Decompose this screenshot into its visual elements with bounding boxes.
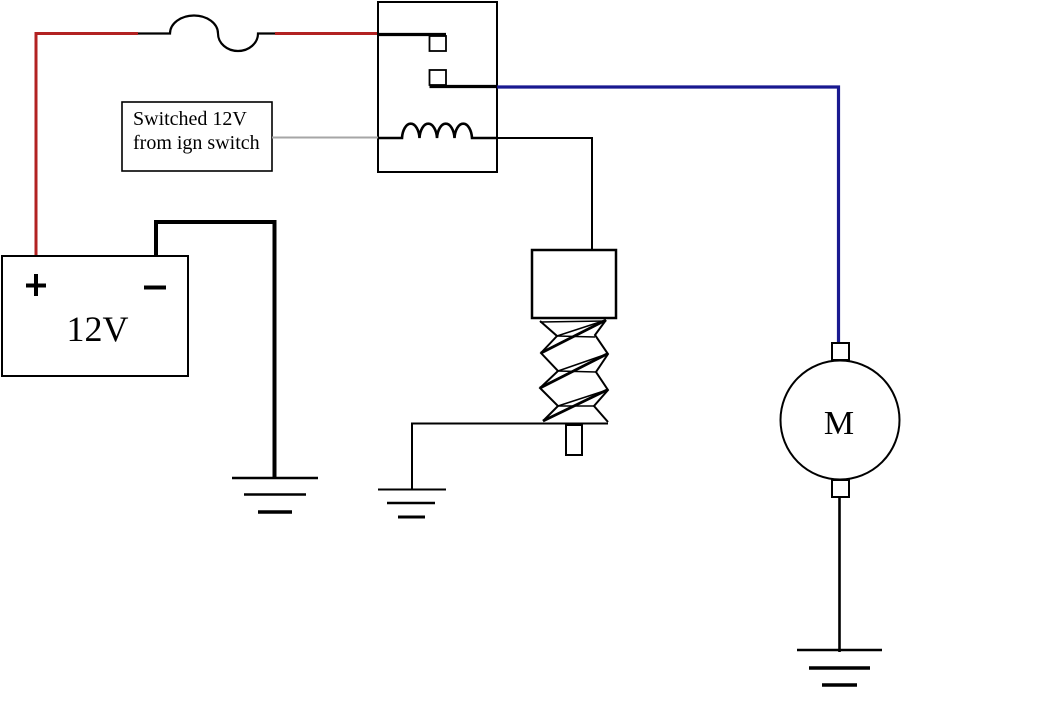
relay contact 87 terminal: [430, 70, 447, 85]
battery plus terminal: [26, 274, 46, 296]
wire ign switch to relay coil (gray): [272, 137, 378, 139]
wire battery plus to fuse (red): [36, 34, 138, 257]
ground solenoid: [378, 490, 446, 518]
solenoid spring: [540, 320, 608, 422]
svg-text:12V: 12V: [67, 309, 129, 349]
wire battery minus to ground (black): [156, 222, 275, 477]
motor M1 terminal top: [832, 343, 849, 360]
motor M1 terminal bottom: [832, 480, 849, 497]
wire relay coil to solenoid: [497, 138, 592, 251]
solenoid plunger stub: [566, 425, 582, 455]
motor M1 body: [781, 361, 900, 480]
battery minus terminal: [144, 286, 166, 290]
fuse F1: [138, 16, 277, 52]
battery B1 body: [2, 256, 188, 376]
ground motor: [797, 650, 882, 685]
wire solenoid to ground: [412, 424, 608, 490]
wire motor to ground: [838, 497, 841, 652]
svg-text:from ign switch: from ign switch: [133, 132, 260, 154]
wire fuse to relay pin 30 (red): [275, 32, 379, 35]
svg-text:Switched 12V: Switched 12V: [133, 108, 247, 130]
solenoid body: [532, 250, 616, 318]
svg-text:M: M: [824, 405, 854, 442]
relay pin 30 lead: [378, 33, 446, 36]
relay contact 30 terminal: [430, 36, 447, 51]
relay pin 87 lead: [430, 85, 498, 88]
relay coil L1: [378, 124, 497, 138]
relay K1 body: [378, 2, 497, 172]
label box switched 12V: [122, 102, 272, 171]
wire relay 87 to motor (blue): [497, 87, 839, 343]
ground battery: [232, 478, 318, 512]
